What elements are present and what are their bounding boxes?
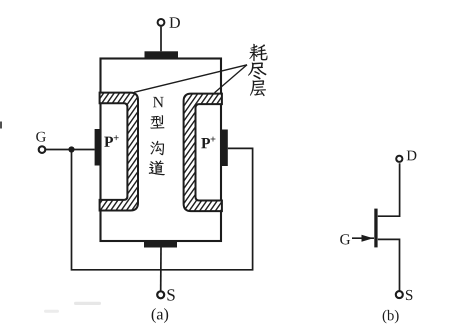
leader line to left depletion layer xyxy=(134,65,247,93)
junction dot xyxy=(68,146,74,152)
terminal S circle xyxy=(157,291,164,298)
(b) terminal S circle xyxy=(396,291,403,298)
depletion layer right (hatched) xyxy=(184,94,222,212)
caption (a) xyxy=(152,308,169,323)
(b) wire source xyxy=(378,239,400,290)
(b) label D xyxy=(407,151,417,161)
wire gate lead xyxy=(46,149,95,151)
(b) gate arrowhead xyxy=(362,235,374,242)
terminal D circle xyxy=(158,19,165,26)
wire source lead xyxy=(160,248,162,291)
label N (channel) xyxy=(153,97,164,107)
label + right sup xyxy=(211,137,216,142)
(b) wire drain xyxy=(378,163,400,216)
label 耗 (depletion-1) xyxy=(249,44,267,61)
source contact bar xyxy=(144,240,177,247)
wire gate loop to right gate xyxy=(72,148,253,269)
drain contact bar xyxy=(145,51,179,58)
label S xyxy=(167,289,174,300)
label 沟 (channel-1) xyxy=(150,141,164,155)
(b) gate bar xyxy=(374,209,377,248)
gate contact bar left xyxy=(95,129,101,166)
label 层 (depletion-3) xyxy=(250,80,266,96)
(b) label G xyxy=(340,234,350,244)
scan artifact left edge xyxy=(0,122,2,129)
(b) label S xyxy=(406,290,412,300)
label 型 (type) xyxy=(150,115,164,128)
leader line to right depletion layer xyxy=(215,65,248,93)
(b) terminal D circle xyxy=(396,156,402,162)
depletion layer left (hatched) xyxy=(100,93,138,211)
gate contact bar right xyxy=(221,130,228,167)
label D xyxy=(169,17,179,28)
label + left sup xyxy=(114,135,119,140)
N-type body rectangle xyxy=(101,59,222,242)
terminal G circle xyxy=(39,146,46,153)
caption (b) xyxy=(383,310,399,323)
(b) wire gate with arrow xyxy=(352,237,374,239)
wire drain lead xyxy=(160,27,162,52)
label G xyxy=(36,132,46,142)
scan smudge 2 xyxy=(44,310,59,313)
label P+ left xyxy=(104,137,113,147)
label P+ right xyxy=(201,138,210,148)
scan smudge 1 xyxy=(74,302,101,305)
label 道 (channel-2) xyxy=(149,160,165,175)
label 尽 (depletion-2) xyxy=(248,62,266,79)
